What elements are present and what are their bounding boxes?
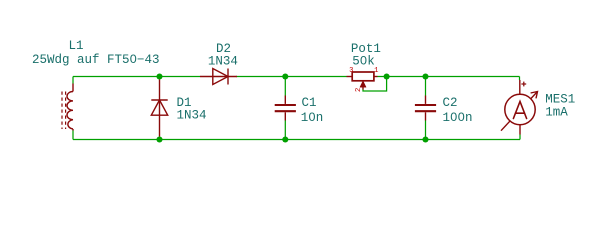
- junction C1 top: [282, 73, 288, 79]
- wire top rail right segment: [378, 76, 520, 78]
- wire pot wiper to rail: [363, 77, 387, 92]
- svg-text:1N34: 1N34: [208, 55, 238, 69]
- ammeter MES1 letter A: [513, 102, 526, 119]
- svg-text:2: 2: [355, 88, 363, 92]
- wire top rail left segment: [73, 76, 200, 78]
- wire C2 top: [425, 77, 427, 96]
- wire bottom rail: [73, 139, 520, 141]
- potentiometer Pot1 wiper arrow: [360, 81, 366, 87]
- wire L1 bottom: [72, 131, 74, 140]
- junction C2 top: [422, 73, 428, 79]
- svg-text:3: 3: [349, 67, 353, 75]
- potentiometer Pot1: [347, 72, 378, 90]
- svg-text:100n: 100n: [443, 111, 473, 125]
- inductor L1: [67, 84, 73, 131]
- junction D1 top: [156, 73, 162, 79]
- svg-text:1mA: 1mA: [545, 106, 568, 120]
- svg-text:C2: C2: [443, 96, 458, 110]
- svg-text:1N34: 1N34: [177, 108, 207, 122]
- svg-text:50k: 50k: [352, 54, 375, 68]
- junction D1 bottom: [156, 136, 162, 142]
- wire C2 bottom: [425, 121, 427, 140]
- svg-text:10n: 10n: [301, 111, 324, 125]
- inductor L1 core dashed lines: [62, 92, 66, 130]
- wire C1 top: [284, 77, 286, 96]
- junction C1 bottom: [282, 136, 288, 142]
- junction pot wiper: [384, 73, 390, 79]
- svg-text:MES1: MES1: [545, 92, 575, 106]
- diode D2: [200, 69, 237, 85]
- wire meter top: [519, 77, 521, 81]
- ammeter MES1: [501, 80, 538, 135]
- ammeter MES1 arrowhead: [531, 92, 538, 99]
- wire C1 bottom: [284, 121, 286, 140]
- ammeter MES1 plus sign: [521, 82, 526, 87]
- capacitor C2: [415, 96, 436, 121]
- svg-text:25Wdg auf FT50−43: 25Wdg auf FT50−43: [32, 53, 160, 67]
- svg-text:C1: C1: [302, 96, 317, 110]
- wire meter bottom: [519, 135, 521, 140]
- wire L1 top: [72, 77, 74, 84]
- capacitor C1: [275, 96, 296, 121]
- diode D1: [151, 80, 167, 137]
- svg-text:1: 1: [374, 67, 378, 75]
- svg-text:L1: L1: [68, 39, 83, 53]
- junction C2 bottom: [422, 136, 428, 142]
- wire top rail middle segment: [236, 76, 346, 78]
